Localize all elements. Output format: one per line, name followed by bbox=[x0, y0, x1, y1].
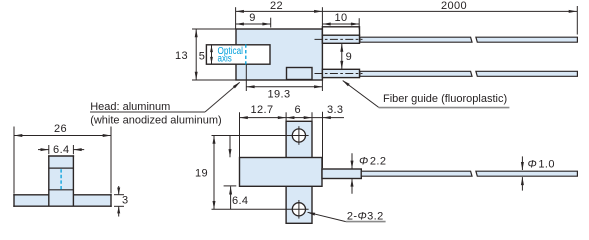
top view: fiber flange box above upper guide bbox=[322, 27, 359, 35]
top view: sensor body (22x13) bbox=[236, 29, 322, 80]
top view: slot opening (white) bbox=[206, 45, 270, 64]
svg-text:19.3: 19.3 bbox=[267, 88, 290, 100]
side view: optical axis cyan dashed line bbox=[60, 169, 62, 189]
dimension 9 slot depth line, arrows, tick bbox=[236, 23, 271, 25]
dimension 19.3 line and arrows bbox=[246, 86, 322, 88]
svg-text:axis: axis bbox=[218, 53, 232, 64]
dimension 6.4 side arrows bbox=[38, 149, 49, 151]
side view: base plate edges bbox=[13, 194, 15, 207]
svg-text:12.7: 12.7 bbox=[250, 104, 273, 116]
top view: small block on body bottom edge bbox=[287, 68, 313, 80]
dimension row line bbox=[240, 117, 345, 119]
svg-text:6.4: 6.4 bbox=[53, 144, 70, 156]
front view: bottom mounting hole bbox=[292, 203, 305, 216]
dimension 6.4 side ticks bbox=[48, 145, 50, 154]
svg-text:2000: 2000 bbox=[441, 0, 467, 12]
dimension 19 line and arrows bbox=[213, 136, 215, 210]
top view: lower fiber guide bbox=[322, 69, 359, 77]
svg-text:26: 26 bbox=[54, 123, 67, 135]
dimension 5 line and arrows bbox=[211, 45, 213, 63]
svg-text:Fiber guide (fluoroplastic): Fiber guide (fluoroplastic) bbox=[383, 93, 507, 105]
svg-text:3.3: 3.3 bbox=[327, 104, 344, 116]
svg-text:Φ 2.2: Φ 2.2 bbox=[359, 156, 386, 168]
top view: lower fiber left segment with break cut bbox=[360, 71, 472, 76]
top view: upper fiber guide bbox=[322, 35, 359, 43]
hole callout 2-phi 3.2 leader and underline bbox=[308, 212, 346, 221]
svg-text:Head: aluminum: Head: aluminum bbox=[90, 101, 170, 113]
svg-text:3: 3 bbox=[122, 195, 129, 207]
dimension phi 2.2 arrows bbox=[351, 153, 353, 168]
front view: fiber left segment with break cut bbox=[361, 171, 472, 176]
head label leader underline and arrow bbox=[90, 111, 205, 113]
side view: base plate fill bbox=[14, 195, 111, 206]
dimension 13 extension lines bbox=[192, 28, 236, 30]
front view: top mounting hole bbox=[292, 129, 305, 142]
dimension 19 extension lines to hole centers bbox=[212, 135, 309, 137]
dimension 19.3 extension lines bbox=[245, 64, 247, 91]
front view: mounting tab plate bbox=[286, 121, 312, 223]
optical axis cyan dashed line bbox=[245, 44, 247, 64]
top view: upper fiber dash-dot centerline bbox=[315, 38, 363, 40]
side view: slot bottom hidden line bbox=[49, 189, 74, 191]
dimension phi 1.0 arrows bbox=[521, 156, 523, 170]
svg-text:5: 5 bbox=[199, 51, 206, 63]
front view: fiber guide stub bbox=[322, 169, 361, 179]
dimension row 12.7 / 6 / 3.3 extension lines bbox=[239, 112, 241, 157]
dimension 22 line and arrows bbox=[236, 10, 323, 12]
front view: fiber right segment to end bbox=[476, 171, 578, 176]
dimension 26 line and arrows bbox=[14, 135, 111, 137]
dimension 22 extension lines bbox=[235, 7, 237, 28]
svg-text:13: 13 bbox=[175, 50, 188, 62]
svg-text:Φ 1.0: Φ 1.0 bbox=[527, 158, 554, 170]
dimension 6.4 front arrow and tick bbox=[230, 187, 232, 210]
dimension 6.4 top unlabeled arrow bbox=[229, 136, 231, 158]
svg-text:(white anodized aluminum): (white anodized aluminum) bbox=[90, 115, 221, 127]
dimension 3 upper arrow and tick bbox=[118, 186, 120, 194]
dimension 9 fiber spacing line and arrows bbox=[341, 44, 343, 69]
dimension 2000 right extension line bbox=[576, 6, 578, 35]
svg-text:10: 10 bbox=[334, 12, 347, 24]
svg-text:2-Φ3.2: 2-Φ3.2 bbox=[347, 211, 384, 223]
svg-text:22: 22 bbox=[270, 0, 283, 12]
side view: slot top hidden line bbox=[49, 167, 74, 169]
dimension 26 extension lines bbox=[13, 127, 15, 194]
dimension 13 line and arrows bbox=[195, 29, 197, 80]
top view: upper fiber left segment with break cut bbox=[360, 37, 472, 42]
top view: lower fiber dash-dot centerline bbox=[315, 73, 363, 75]
front view: top hole vertical crosshair bbox=[298, 126, 300, 145]
svg-text:19: 19 bbox=[195, 168, 208, 180]
svg-text:9: 9 bbox=[249, 12, 256, 24]
front view: bottom hole vertical crosshair bbox=[298, 200, 300, 219]
side view: center block fill bbox=[49, 156, 74, 206]
svg-text:9: 9 bbox=[346, 51, 353, 63]
dimension 3.3 arrow from right bbox=[323, 116, 331, 119]
dimension 12.7 arrows bbox=[240, 116, 248, 119]
dimension 3 lower arrow and tick bbox=[118, 207, 120, 217]
svg-text:6.4: 6.4 bbox=[232, 195, 249, 207]
front view: body front rectangle bbox=[240, 158, 323, 187]
fiber guide leader arrow and underline bbox=[343, 81, 379, 108]
top view: lower fiber right segment to end bbox=[476, 71, 578, 76]
dimension 2000 line and arrows bbox=[322, 10, 577, 12]
dimension 10 line, arrows, tick bbox=[322, 23, 359, 25]
top view: upper fiber right segment to end bbox=[476, 37, 578, 42]
svg-text:6: 6 bbox=[295, 104, 302, 116]
dimension 6 arrows bbox=[286, 116, 294, 119]
side view: center block edges bbox=[48, 155, 50, 206]
